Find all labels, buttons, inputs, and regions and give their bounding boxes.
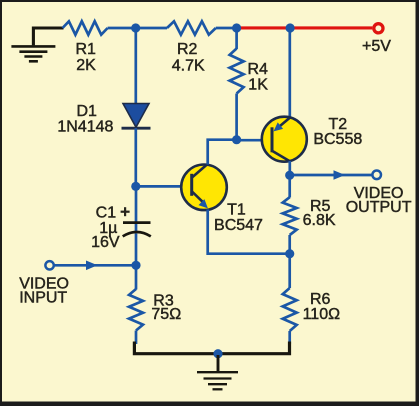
wire R6 to ground bus <box>288 331 291 344</box>
svg-text:R2: R2 <box>177 41 198 58</box>
wire node A to R2 <box>136 27 167 30</box>
input arrow <box>86 261 98 271</box>
svg-text:2K: 2K <box>76 57 96 74</box>
diode D1 <box>57 103 150 136</box>
transistor T1 (BC547 NPN) <box>181 164 263 234</box>
wire input terminal to node H <box>54 264 136 267</box>
resistor R4 <box>230 49 269 94</box>
svg-text:16V: 16V <box>91 234 120 251</box>
svg-text:1K: 1K <box>248 77 268 94</box>
resistor R2 <box>167 21 216 74</box>
wire T1 collector to node D <box>208 140 237 165</box>
node H (junction input/C1/R3) <box>131 261 140 270</box>
wire R4 to node D <box>235 94 238 140</box>
wire node E to R5 <box>288 175 291 197</box>
+5V red supply wire <box>237 26 373 29</box>
svg-text:D1: D1 <box>76 103 97 120</box>
node A (junction R1/R2/D1) <box>131 23 140 32</box>
+5V terminal <box>362 24 391 55</box>
wire node E to output terminal <box>290 174 373 177</box>
resistor R1 <box>63 21 108 74</box>
node C (junction rail/T2 emitter) <box>286 23 295 32</box>
wire R1 to node A <box>108 27 136 30</box>
node B (junction R2/R4/+5V rail) <box>232 23 241 32</box>
ground bus (bottom black wire) <box>134 342 289 354</box>
wire node B to R4 <box>235 28 238 49</box>
wire node H to R3 <box>135 265 138 289</box>
output arrow <box>334 170 346 180</box>
svg-text:R4: R4 <box>248 61 269 78</box>
wire T1 emitter to node G <box>208 210 290 254</box>
node F (junction D1/C1/T1 base) <box>131 182 140 191</box>
resistor R6 <box>283 288 340 331</box>
wire node C to T2 emitter <box>288 28 291 119</box>
node D (junction R4/T1 collector/T2 base) <box>232 135 241 144</box>
svg-text:4.7K: 4.7K <box>172 57 205 74</box>
wire R3 to ground bus <box>135 331 138 345</box>
wire node F to C1 <box>135 186 138 232</box>
node I (ground junction) <box>213 349 222 358</box>
resistor R3 <box>129 289 181 331</box>
svg-text:1N4148: 1N4148 <box>57 119 113 136</box>
svg-text:75Ω: 75Ω <box>151 306 181 323</box>
svg-text:110Ω: 110Ω <box>303 306 341 323</box>
node G (junction T1 emitter/R5/R6) <box>285 249 294 258</box>
svg-text:6.8K: 6.8K <box>303 212 336 229</box>
svg-text:R1: R1 <box>75 41 96 58</box>
wire R2 to node B <box>216 27 237 30</box>
wire R5 to node G <box>288 235 291 254</box>
node E (junction T2 collector/R5/output) <box>285 171 294 180</box>
diode D1 wire from node A <box>134 28 137 105</box>
svg-text:BC558: BC558 <box>313 131 362 148</box>
svg-text:T1: T1 <box>227 201 246 218</box>
wire T2 collector to node E <box>288 161 291 175</box>
svg-text:+5V: +5V <box>362 38 391 55</box>
svg-text:C1: C1 <box>96 204 117 221</box>
wire node G to R6 <box>288 254 291 288</box>
ground (bottom) <box>197 355 238 389</box>
resistor R5 <box>283 197 336 235</box>
svg-text:INPUT: INPUT <box>19 290 67 307</box>
ground (top-left) <box>11 28 63 61</box>
capacitor C1 <box>91 204 151 251</box>
VIDEO OUTPUT terminal <box>346 171 412 216</box>
wire D1 to node F <box>134 128 137 186</box>
transistor T2 (BC558 PNP) <box>262 116 363 162</box>
wire node F to T1 base <box>136 185 192 188</box>
svg-text:OUTPUT: OUTPUT <box>346 199 412 216</box>
wire node D to T2 base <box>237 139 272 142</box>
svg-text:BC547: BC547 <box>214 217 263 234</box>
VIDEO INPUT terminal <box>19 261 69 307</box>
wire C1 to node H <box>135 234 138 266</box>
